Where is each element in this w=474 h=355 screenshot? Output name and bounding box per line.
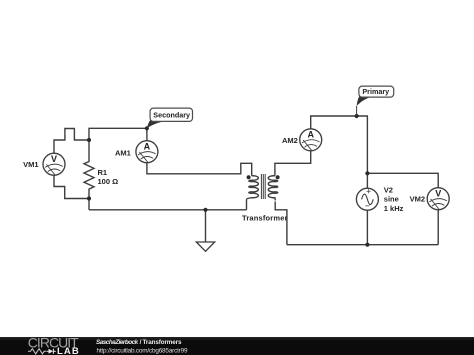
transformer phase dot left — [247, 175, 251, 179]
svg-text:100 Ω: 100 Ω — [98, 177, 119, 186]
svg-text:V: V — [51, 154, 57, 164]
junction node B — [87, 196, 91, 200]
ground — [196, 242, 214, 251]
footer bar — [0, 337, 474, 355]
wire AM2 top to Primary wire and down to V2 node — [311, 116, 368, 173]
wire V2 bottom to rail — [366, 210, 368, 245]
resistor R1 — [84, 140, 94, 199]
svg-text:sine: sine — [384, 195, 399, 204]
svg-text:Transformers: Transformers — [143, 339, 182, 346]
wire left winding bottom to rail — [246, 200, 248, 210]
wire VM2 bottom to rail — [437, 210, 439, 245]
wire node A up and right to Secondary node — [89, 128, 147, 140]
svg-text:/: / — [140, 339, 142, 346]
wire Secondary node down to AM1 top — [146, 128, 148, 141]
transformer T1 — [247, 174, 278, 200]
junction node A — [87, 138, 91, 142]
wire AM1 bottom to transformer left winding top — [147, 163, 252, 176]
wire right winding bottom to bottom-right rail — [275, 202, 287, 245]
svg-text:Transformer: Transformer — [242, 214, 288, 223]
svg-text:LAB: LAB — [57, 346, 79, 355]
svg-text:AM1: AM1 — [115, 148, 131, 157]
svg-text:1 kHz: 1 kHz — [384, 204, 404, 213]
svg-text:V: V — [435, 189, 441, 199]
svg-text:V2: V2 — [384, 185, 393, 194]
wire ground stem — [205, 210, 207, 242]
wire bottom-right rail — [287, 244, 438, 246]
junction V2 top node — [365, 171, 369, 175]
wire V2 node to VM2 top — [367, 173, 438, 188]
wire bottom-left rail — [89, 209, 247, 211]
flag Primary — [357, 86, 394, 116]
logo resistor glyph — [28, 349, 47, 354]
wire AM2 bottom to right winding top — [275, 151, 311, 176]
junction Secondary anchor — [145, 126, 149, 130]
logo diode glyph — [47, 350, 49, 352]
svg-text:Primary: Primary — [362, 87, 389, 96]
svg-text:Secondary: Secondary — [153, 110, 190, 119]
voltmeter VM2 — [427, 188, 449, 210]
svg-text:VM2: VM2 — [410, 195, 425, 204]
junction ground node — [203, 208, 207, 212]
junction V2 bottom node — [365, 243, 369, 247]
wire VM1 top jog to node A — [54, 129, 89, 154]
svg-text:SaschaZierbock: SaschaZierbock — [96, 339, 139, 346]
wire node B down to bottom rail — [88, 199, 90, 210]
wire VM1 bottom staircase to node B — [54, 175, 89, 198]
source V2 — [356, 188, 378, 210]
junction Primary anchor — [355, 114, 359, 118]
transformer phase dot right — [276, 175, 280, 179]
svg-text:A: A — [307, 130, 314, 140]
flag Secondary — [147, 108, 193, 128]
voltmeter VM1 — [43, 153, 65, 175]
svg-text:AM2: AM2 — [282, 136, 298, 145]
wire V2 node down to V2 — [366, 173, 368, 188]
svg-text:http://circuitlab.com/cbg685ar: http://circuitlab.com/cbg685arctr99 — [97, 347, 188, 354]
svg-text:R1: R1 — [98, 168, 108, 177]
svg-text:VM1: VM1 — [23, 160, 38, 169]
ammeter AM2 — [300, 129, 322, 151]
ammeter AM1 — [136, 141, 158, 163]
svg-text:A: A — [144, 142, 151, 152]
